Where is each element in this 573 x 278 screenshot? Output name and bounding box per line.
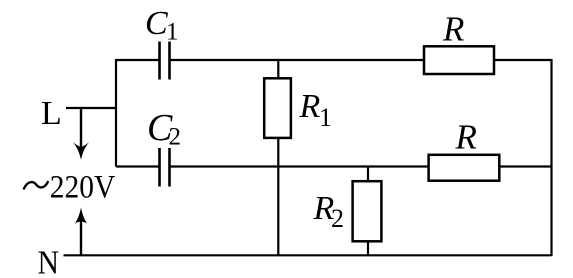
wire C2 to resistor R (middle)	[170, 165, 429, 167]
wire right rail (vertical)	[550, 59, 552, 256]
label R2	[313, 190, 345, 233]
svg-text:2: 2	[169, 124, 182, 151]
label R1	[299, 88, 333, 132]
svg-text:R: R	[455, 118, 477, 157]
wire top-left segment (node A to C1)	[116, 59, 159, 61]
svg-text:N: N	[38, 245, 60, 278]
svg-text:1: 1	[166, 19, 179, 46]
label ~220V	[24, 169, 115, 205]
svg-text:C: C	[145, 5, 168, 42]
label C1	[145, 5, 179, 46]
wire left vertical (L node to C2 line)	[115, 59, 117, 167]
svg-text:L: L	[41, 95, 62, 132]
wire middle line to resistor R2	[367, 167, 369, 182]
arrow down (from L)	[73, 108, 89, 160]
wire R1 bottom through middle line to bottom rail	[277, 138, 279, 256]
wire second line left (to C2)	[116, 165, 159, 167]
resistor R (top)	[424, 46, 494, 74]
label C2	[147, 107, 181, 151]
wire top rail to resistor R1	[277, 60, 279, 78]
wire C1 to resistor R (top)	[170, 59, 425, 61]
svg-text:R: R	[299, 88, 321, 125]
capacitor C1	[160, 42, 170, 80]
wire bottom rail	[64, 254, 552, 256]
resistor R1	[264, 78, 291, 138]
wire L lead	[66, 107, 116, 109]
arrow up (to N)	[75, 208, 87, 256]
svg-text:1: 1	[319, 103, 332, 132]
svg-text:2: 2	[331, 204, 344, 233]
capacitor C2	[160, 148, 170, 187]
svg-text:220V: 220V	[50, 169, 116, 205]
wire resistor R (top) to right rail	[494, 59, 552, 61]
wire resistor R (middle) to right rail	[499, 165, 551, 167]
resistor R2	[353, 181, 382, 241]
svg-text:R: R	[442, 10, 464, 49]
resistor R (middle)	[429, 155, 500, 181]
wire R2 bottom to bottom rail	[367, 241, 369, 256]
